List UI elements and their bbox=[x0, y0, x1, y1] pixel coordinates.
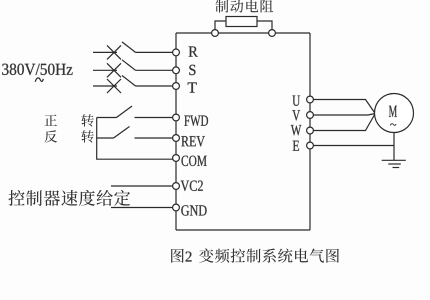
switch S2: S phase breaker bbox=[93, 60, 173, 78]
ground symbol bbox=[382, 160, 406, 167]
label: 380V/50Hz source bbox=[2, 64, 72, 75]
label: terminal V bbox=[292, 110, 300, 120]
wire: U phase to motor bbox=[313, 100, 375, 114]
label: AC tilde bbox=[35, 78, 43, 82]
switch S3: T phase breaker bbox=[93, 76, 173, 94]
label: terminal S bbox=[189, 65, 195, 75]
terminal circle: COM bbox=[173, 155, 180, 162]
motor U2: AC motor M bbox=[375, 94, 414, 133]
label: terminal R bbox=[189, 46, 198, 56]
label: 反 (reverse) bbox=[44, 130, 57, 142]
label: terminal REV bbox=[181, 136, 205, 146]
caption: figure number 2 bbox=[186, 252, 192, 262]
label: 控制器速度给定 (controller speed reference) bbox=[8, 190, 130, 206]
wire: E earth lead bbox=[313, 145, 394, 147]
terminal circle: R bbox=[173, 49, 180, 56]
wire: inverter left bus bbox=[175, 33, 177, 230]
terminal circle: VC2 bbox=[173, 183, 180, 190]
label: terminal FWD bbox=[184, 116, 208, 126]
label: 转 (rotate, fwd) bbox=[81, 114, 93, 127]
wire: W phase to motor bbox=[313, 114, 375, 131]
terminal circle: T bbox=[173, 83, 180, 90]
label: terminal T bbox=[188, 82, 197, 92]
wire: inverter right bus bbox=[309, 33, 311, 230]
terminal circle: S bbox=[173, 67, 180, 74]
label: terminal U bbox=[292, 96, 300, 106]
wire: V phase to motor bbox=[313, 114, 375, 116]
label: M inside motor bbox=[389, 106, 397, 117]
wire: to VC2 bbox=[111, 185, 173, 187]
terminal circle: GND bbox=[173, 204, 180, 211]
terminal circle: brake tap right bbox=[269, 30, 276, 37]
wire: brake resistor right lead bbox=[257, 21, 272, 30]
terminal circle: FWD bbox=[173, 114, 180, 121]
switch S4: forward run bbox=[97, 106, 173, 118]
resistor R1: braking resistor body bbox=[226, 17, 257, 27]
label: 正 (forward) bbox=[45, 114, 57, 125]
wire: inverter bottom bbox=[176, 229, 310, 231]
caption: 变频控制系统电气图 text bbox=[199, 248, 339, 262]
switch S1: R phase breaker bbox=[93, 42, 173, 60]
terminal circle: E bbox=[307, 142, 314, 149]
wire: to GND bbox=[111, 207, 173, 209]
label: terminal W bbox=[291, 125, 302, 135]
terminal circle: brake tap left bbox=[212, 30, 219, 37]
wire: switch common bus to COM bbox=[97, 118, 174, 160]
label: terminal VC2 bbox=[181, 181, 203, 191]
wire: brake resistor left lead bbox=[215, 21, 226, 30]
label: terminal COM bbox=[181, 156, 206, 166]
label: terminal GND bbox=[181, 205, 206, 215]
label: 制动电阻 (braking resistor) bbox=[215, 0, 273, 13]
wire: motor frame to earth bbox=[393, 133, 395, 161]
label: 转 (rotate, rev) bbox=[81, 130, 93, 143]
terminal circle: REV bbox=[173, 135, 180, 142]
label: terminal E bbox=[293, 141, 299, 151]
switch S5: reverse run bbox=[97, 127, 173, 139]
wire: top bus bbox=[176, 32, 310, 34]
terminal circle: W bbox=[307, 127, 314, 134]
caption: 图2 变频控制系统电气图 bbox=[171, 249, 184, 263]
terminal circle: U bbox=[307, 96, 314, 103]
terminal circle: V bbox=[307, 112, 314, 119]
label: tilde inside motor bbox=[390, 124, 396, 126]
